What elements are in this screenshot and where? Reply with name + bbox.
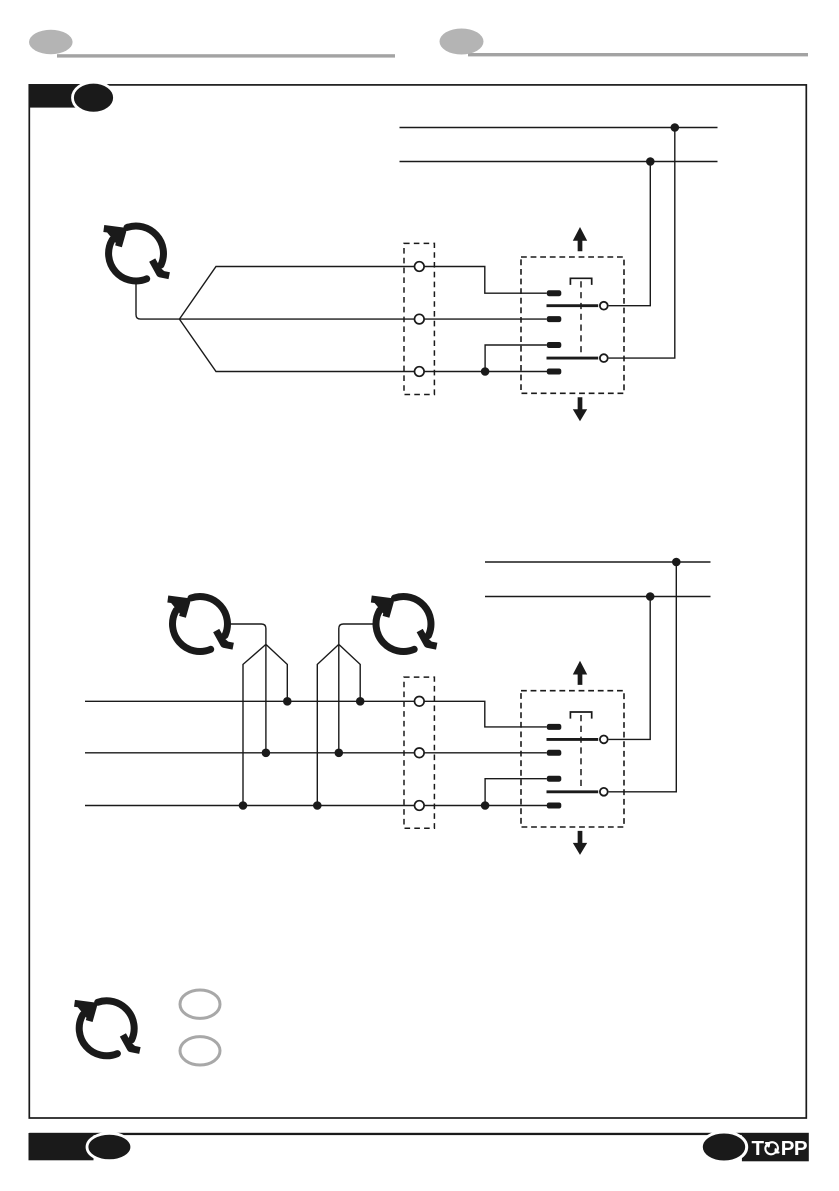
svg-text:T: T — [752, 1137, 765, 1160]
svg-text:PP: PP — [781, 1137, 807, 1160]
